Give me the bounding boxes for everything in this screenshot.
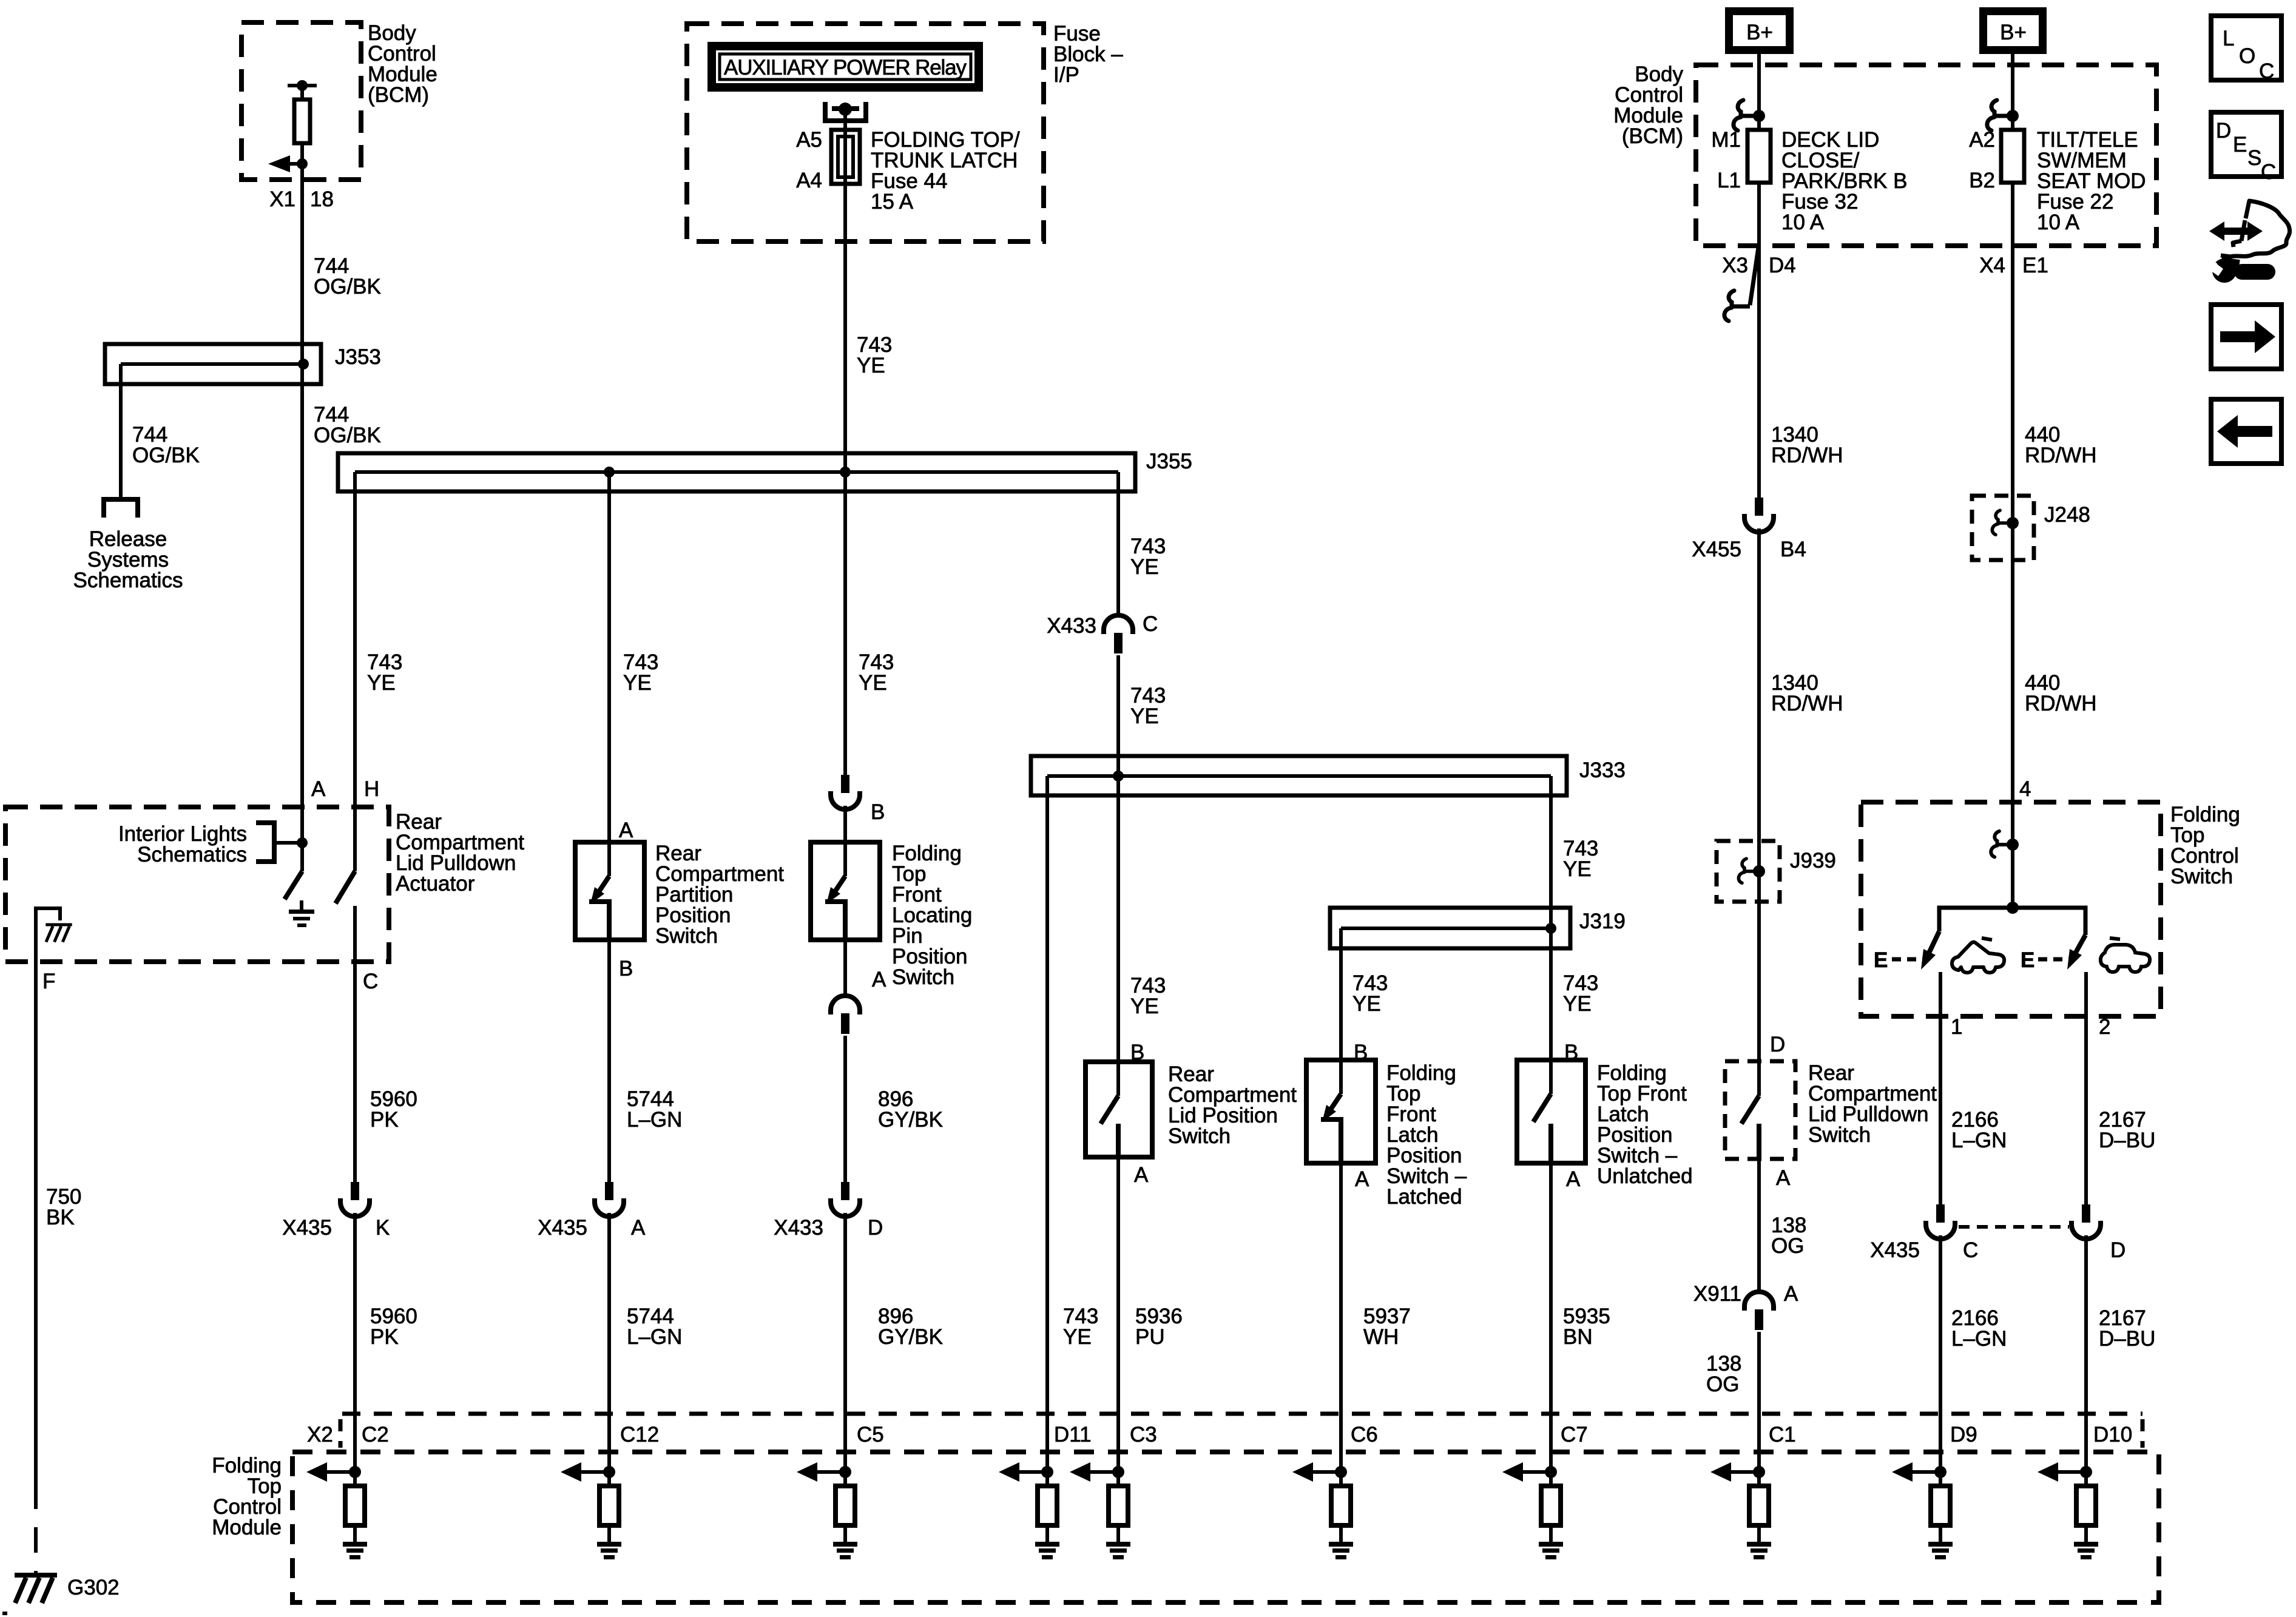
svg-text:1: 1 (1951, 1015, 1962, 1039)
node: relay output terminal bracket with dot (825, 102, 866, 121)
label wire 1340 RD/WH upper (1771, 423, 1843, 467)
svg-text:E1: E1 (2022, 254, 2048, 277)
module: Fuse Block - I/P dashed box (687, 24, 1044, 241)
svg-text:X911: X911 (1693, 1282, 1741, 1306)
connector X435 pin A (538, 1182, 646, 1240)
svg-text:OG: OG (1771, 1234, 1804, 1258)
svg-text:Switch: Switch (1808, 1123, 1871, 1147)
svg-text:Schematics: Schematics (73, 569, 183, 592)
svg-text:18: 18 (310, 187, 334, 211)
svg-text:Switch: Switch (1168, 1124, 1231, 1148)
wire: 744 OG/BK from J353 down to actuator pin A (300, 364, 304, 871)
svg-text:Schematics: Schematics (137, 843, 247, 866)
wire: 750 BK dashed continuation (34, 1484, 38, 1574)
svg-text:A5: A5 (796, 128, 822, 152)
svg-text:YE: YE (1563, 992, 1592, 1016)
svg-text:RD/WH: RD/WH (2025, 692, 2097, 715)
svg-text:M1: M1 (1711, 128, 1741, 152)
svg-text:G302: G302 (67, 1576, 120, 1599)
svg-text:E: E (1874, 948, 1888, 972)
svg-text:X455: X455 (1692, 538, 1741, 561)
label wire 2166 L-GN upper (1951, 1108, 2007, 1152)
wire: B+ feed into fuse 22 (2011, 54, 2014, 130)
label Folding Top Front Latch Position Switch - Unlatched (1597, 1061, 1693, 1188)
svg-text:C2: C2 (362, 1423, 389, 1447)
svg-text:PK: PK (370, 1325, 399, 1349)
label wire 743 YE feed to J319 (1563, 837, 1598, 881)
svg-text:L–GN: L–GN (627, 1108, 682, 1132)
label Release Systems Schematics (73, 527, 183, 592)
switch: folding top OPEN contact (1921, 931, 1939, 970)
label wire 5937 WH (1363, 1305, 1411, 1349)
label wire 743 YE col C7 (1563, 971, 1598, 1016)
label FOLDING TOP/ TRUNK LATCH Fuse 44 15 A (871, 128, 1020, 214)
wire: into locating pin switch (843, 806, 847, 876)
svg-text:K: K (376, 1216, 390, 1240)
svg-text:B+: B+ (1746, 21, 1773, 44)
connector X2 left tick (339, 1419, 343, 1448)
module input D11: arrow, resistor, ground (999, 1462, 1059, 1559)
switch: Folding Top Front Latch Position Switch - Latched (1306, 1060, 1376, 1163)
connector: locating pin switch pigtail B (831, 775, 885, 824)
splice J939 dashed box (1717, 841, 1780, 902)
svg-text:L–GN: L–GN (1951, 1327, 2007, 1351)
page corner mark (2, 1612, 7, 1615)
wire: 743 YE from J333 to lid position switch (1116, 776, 1120, 1096)
ground: chassis ground stub inside actuator box (36, 908, 72, 962)
svg-text:OG/BK: OG/BK (314, 424, 381, 447)
connector X911 pin A (1693, 1282, 1798, 1330)
wire: switch contact 2 to box bottom (2084, 972, 2088, 1204)
splice J333 (1031, 756, 1567, 795)
svg-text:D: D (2110, 1238, 2125, 1262)
icon LOC box (2211, 16, 2281, 83)
wire: 743 YE from J355 to partition switch (607, 472, 611, 876)
svg-text:PK: PK (370, 1108, 399, 1132)
wire: 743 YE from J355 to actuator pin H (353, 472, 357, 871)
wire: 2166 L-GN to module pin D9 (1939, 1235, 1942, 1472)
svg-text:C: C (1143, 612, 1158, 636)
splice J355 (338, 453, 1135, 491)
relay: AUXILIARY POWER Relay plate (707, 42, 983, 92)
switch: actuator contact H (336, 871, 355, 903)
svg-text:OG/BK: OG/BK (132, 444, 200, 467)
ground: actuator internal ground (289, 900, 314, 927)
wire: 5935 BN to module pin C7 (1549, 1163, 1553, 1472)
svg-text:D: D (1770, 1033, 1785, 1056)
svg-text:X433: X433 (774, 1216, 823, 1240)
svg-text:A: A (1134, 1163, 1149, 1187)
module input C5: arrow, resistor, ground (797, 1462, 857, 1559)
svg-text:YE: YE (1130, 704, 1159, 728)
svg-text:X433: X433 (1047, 614, 1096, 638)
wire: relay output to fuse 44 (843, 109, 847, 472)
icon right-arrow box (2211, 305, 2281, 369)
label Rear Compartment Lid Pulldown Switch (1808, 1061, 1937, 1147)
svg-text:H: H (364, 777, 379, 801)
label Folding Top Front Latch Position Switch - Latched (1386, 1061, 1467, 1209)
svg-text:Switch: Switch (2170, 865, 2233, 888)
svg-text:Latched: Latched (1386, 1185, 1462, 1209)
label Rear Compartment Partition Position Switch (655, 842, 784, 948)
module input C6: arrow, resistor, ground (1292, 1462, 1353, 1559)
label wire 743 YE col D11 (1063, 1305, 1098, 1349)
svg-text:D: D (868, 1216, 883, 1240)
svg-text:X3: X3 (1722, 254, 1748, 277)
svg-text:C3: C3 (1130, 1423, 1157, 1447)
module input C12: arrow, resistor, ground (561, 1462, 621, 1559)
wire: 744 OG/BK from BCM pin 18 to J353 (300, 164, 304, 364)
svg-text:RD/WH: RD/WH (1771, 692, 1843, 715)
svg-text:2: 2 (2099, 1015, 2110, 1039)
svg-text:OG: OG (1706, 1372, 1739, 1396)
module: Folding Top Control Module dashed box (292, 1452, 2159, 1602)
svg-text:C5: C5 (857, 1423, 884, 1447)
svg-text:YE: YE (1563, 857, 1592, 881)
svg-text:YE: YE (1130, 994, 1159, 1018)
icon adjustable (hand/wrench/double-arrow) (2206, 201, 2290, 283)
label wire 440 RD/WH lower (2025, 671, 2097, 715)
connector X3 pass-through jog (1724, 248, 1758, 321)
module input C3: arrow, resistor, ground (1070, 1462, 1130, 1559)
switch: Rear Compartment Lid Pulldown Switch dashed box (1725, 1061, 1795, 1159)
label wire 743 YE col 3 (859, 650, 894, 695)
svg-text:A: A (1784, 1282, 1798, 1306)
module input C2: arrow, resistor, ground (306, 1462, 367, 1559)
svg-text:B4: B4 (1780, 538, 1806, 561)
svg-text:YE: YE (1130, 555, 1159, 579)
svg-text:E: E (2021, 948, 2034, 972)
connector: off-page bracket to Release Systems Schematics (104, 499, 138, 518)
svg-text:YE: YE (367, 671, 396, 695)
wire: fuse 32 to BCM box bottom (1757, 183, 1761, 498)
svg-text:B+: B+ (2000, 21, 2027, 44)
svg-text:C6: C6 (1351, 1423, 1378, 1447)
svg-text:X435: X435 (1870, 1238, 1920, 1262)
splice J319 (1330, 908, 1570, 948)
connector X433 pin C (1047, 612, 1158, 653)
svg-text:C1: C1 (1769, 1423, 1796, 1447)
module input D10: arrow, resistor, ground (2038, 1462, 2098, 1559)
svg-text:Actuator: Actuator (396, 872, 475, 896)
svg-text:(BCM): (BCM) (1622, 124, 1683, 148)
svg-text:A2: A2 (1969, 128, 1995, 152)
switch: Folding Top Control Switch dashed box (1861, 802, 2161, 1016)
svg-text:B: B (871, 800, 885, 824)
icon: car with open deck lid (1952, 938, 2004, 973)
svg-text:O: O (2239, 44, 2255, 68)
svg-text:D4: D4 (1769, 254, 1796, 277)
wire: 138 OG to module pin C1 (1757, 1332, 1761, 1472)
module input C1: arrow, resistor, ground (1710, 1462, 1771, 1559)
label E-- left (1874, 948, 1923, 972)
label wire 5960 PK lower (370, 1305, 417, 1349)
svg-text:D11: D11 (1054, 1423, 1092, 1447)
power: B+ box right (1979, 7, 2047, 54)
svg-text:BN: BN (1563, 1325, 1593, 1349)
label Folding Top Control Switch (2170, 803, 2240, 888)
label Rear Compartment Lid Position Switch (1168, 1062, 1297, 1148)
label wire 5960 PK upper (370, 1087, 417, 1132)
svg-text:D–BU: D–BU (2099, 1327, 2155, 1351)
wire: fuse 22 down to folding top control switch (2011, 183, 2014, 908)
svg-text:D9: D9 (1950, 1423, 1977, 1447)
node: fuse 22 supply tap with curl (1987, 100, 2019, 130)
label Body Control Module (BCM) right (1613, 62, 1683, 148)
svg-text:A: A (631, 1216, 646, 1240)
svg-text:E: E (2233, 133, 2247, 157)
label wire 743 YE above X433 C (1130, 535, 1166, 579)
fuse: TILT/TELE SW/MEM SEAT MOD Fuse 22 10A (2001, 130, 2024, 183)
svg-text:15 A: 15 A (871, 190, 914, 214)
svg-text:YE: YE (857, 354, 885, 377)
wire: 5937 WH to module pin C6 (1339, 1163, 1343, 1472)
wire: 5936 PU to module pin C3 (1116, 1157, 1120, 1472)
svg-text:S: S (2247, 146, 2261, 170)
svg-text:10 A: 10 A (1781, 211, 1825, 234)
label wire 1340 RD/WH lower (1771, 671, 1843, 715)
icon: car closed (2101, 938, 2150, 972)
svg-text:X2: X2 (307, 1423, 333, 1447)
wire: 743 YE from J319 to unlatched switch (1549, 928, 1553, 1094)
node: switch feed tap with curl (1991, 831, 2019, 857)
svg-text:B: B (619, 957, 633, 981)
svg-text:GY/BK: GY/BK (878, 1325, 943, 1349)
label wire 896 GY/BK lower (878, 1305, 943, 1349)
svg-text:L–GN: L–GN (1951, 1129, 2007, 1152)
svg-text:OG/BK: OG/BK (314, 275, 381, 299)
wire: 1340 RD/WH from X455 to pulldown switch (1757, 528, 1761, 1096)
svg-text:C12: C12 (620, 1423, 659, 1447)
svg-text:Module: Module (212, 1516, 282, 1539)
svg-text:J333: J333 (1579, 758, 1626, 782)
connector X2: harness boundary dotted line (342, 1412, 2142, 1416)
connector X435 pin C (1870, 1204, 1978, 1262)
svg-text:A: A (872, 968, 886, 991)
label wire 138 OG lower (1706, 1352, 1741, 1396)
node: output junction with left arrow (268, 155, 308, 172)
svg-text:J353: J353 (335, 345, 381, 369)
svg-text:AUXILIARY POWER Relay: AUXILIARY POWER Relay (724, 56, 967, 79)
label wire 440 RD/WH upper (2025, 423, 2097, 467)
pin X1 18 (269, 187, 334, 211)
svg-text:C: C (1963, 1238, 1978, 1262)
switch: Rear Compartment Partition Position Switch (575, 842, 644, 940)
label Folding Top Control Module (212, 1454, 282, 1539)
wire: 743 YE from J355 to locating pin switch connector B (843, 472, 847, 775)
svg-text:A: A (1566, 1167, 1581, 1191)
svg-text:YE: YE (1063, 1325, 1092, 1349)
label wire 744 OG/BK branch (132, 423, 200, 467)
label wire 2166 L-GN lower (1951, 1306, 2007, 1351)
icon left-arrow box (2211, 399, 2281, 464)
connector: locating pin switch pigtail A (831, 996, 860, 1034)
wire: 750 BK ground wire (34, 962, 38, 1484)
label wire 744 OG/BK (314, 254, 381, 299)
svg-text:BK: BK (46, 1206, 75, 1229)
wire: actuator H to box bottom (353, 906, 357, 1182)
label TILT/TELE SW/MEM SEAT MOD Fuse 22 10 A (2037, 128, 2146, 234)
wire: 5744 L-GN to X435 A (607, 940, 611, 1182)
svg-text:C: C (363, 970, 378, 993)
ground G302 (15, 1575, 57, 1603)
label wire 5936 PU (1135, 1305, 1183, 1349)
wire: 896 GY/BK to X433 D (843, 1036, 847, 1182)
svg-text:PU: PU (1135, 1325, 1165, 1349)
switch: Folding Top Front Latch Position Switch - Unlatched (1517, 1060, 1585, 1163)
switch: Rear Compartment Lid Position Switch (1086, 1062, 1152, 1157)
label wire 5744 L-GN upper (627, 1087, 682, 1132)
svg-text:F: F (42, 970, 55, 993)
svg-text:A: A (311, 777, 326, 801)
label Folding Top Front Locating Pin Position Switch (892, 842, 972, 989)
wire: B+ feed into fuse 32 (1757, 54, 1761, 130)
label wire 744 OG/BK below J353 (314, 403, 381, 447)
svg-text:J248: J248 (2044, 503, 2090, 527)
svg-text:L–GN: L–GN (627, 1325, 682, 1349)
label wire 2167 D-BU upper (2099, 1108, 2155, 1152)
svg-text:X4: X4 (1979, 254, 2005, 277)
svg-text:L1: L1 (1717, 169, 1741, 192)
icon DESC box (2211, 112, 2281, 184)
fuse: DECK LID CLOSE/PARK/BRK B Fuse 32 10A (1747, 130, 1771, 183)
label wire 743 YE below X433 C (1130, 684, 1166, 728)
svg-text:I/P: I/P (1053, 63, 1079, 87)
svg-text:X435: X435 (538, 1216, 587, 1240)
svg-text:YE: YE (1352, 992, 1381, 1016)
svg-text:C7: C7 (1561, 1423, 1588, 1447)
module: Rear Compartment Lid Pulldown Actuator dashed box (5, 807, 389, 962)
svg-text:A: A (1776, 1166, 1791, 1190)
switch: actuator contact A to ground (285, 871, 302, 899)
wire: 2167 D-BU to module pin D10 (2084, 1235, 2088, 1472)
wire: 138 OG to X911 (1757, 1159, 1761, 1291)
module: Body Control Module (BCM) right dashed box (1696, 65, 2156, 246)
wire: 743 YE from J319 to latched switch (1339, 928, 1343, 1094)
switch: folding top CLOSE contact (2067, 935, 2085, 970)
resistor: BCM internal load (294, 100, 310, 143)
svg-text:A: A (1355, 1167, 1369, 1191)
svg-text:D–BU: D–BU (2099, 1129, 2155, 1152)
svg-text:Switch: Switch (892, 965, 954, 989)
svg-text:L: L (2223, 27, 2234, 50)
label E-- right (2021, 948, 2070, 972)
svg-text:(BCM): (BCM) (368, 83, 429, 107)
svg-text:YE: YE (623, 671, 652, 695)
wire: resistor leads (300, 86, 304, 164)
svg-text:C: C (2259, 59, 2274, 83)
label wire 743 YE col C6 (1352, 971, 1388, 1016)
wire: 743 YE from X433 C to J333 (1116, 655, 1120, 776)
pin X4 E1 (1979, 254, 2048, 277)
node: internal BCM terminal bar with junction dot (288, 80, 317, 91)
label wire 743 YE col 2 (623, 650, 658, 695)
svg-text:J939: J939 (1790, 849, 1836, 873)
wire: switch to pigtail connector A (843, 940, 847, 994)
svg-text:X1: X1 (269, 187, 295, 211)
svg-text:D: D (2216, 119, 2231, 143)
splice J248 dashed box (1972, 496, 2034, 560)
svg-text:A4: A4 (796, 169, 822, 192)
node: fuse 32 supply tap with curl (1734, 100, 1765, 130)
pin X3 D4 (1722, 254, 1796, 277)
fuse: FOLDING TOP/TRUNK LATCH Fuse 44 15A (831, 130, 860, 184)
svg-text:Unlatched: Unlatched (1597, 1164, 1693, 1188)
wire: 896 GY/BK to module pin C5 (843, 1213, 847, 1472)
label Fuse Block - I/P (1053, 22, 1123, 87)
switch: Folding Top Front Locating Pin Position Switch (811, 842, 880, 940)
svg-text:J319: J319 (1579, 910, 1626, 933)
svg-text:WH: WH (1363, 1325, 1399, 1349)
wire: 5744 L-GN to module pin C12 (607, 1213, 611, 1472)
label wire 743 YE below fuse block (857, 333, 892, 377)
svg-text:D10: D10 (2093, 1423, 2132, 1447)
label wire 896 GY/BK upper (878, 1087, 943, 1132)
module input C7: arrow, resistor, ground (1502, 1462, 1563, 1559)
module input D9: arrow, resistor, ground (1892, 1462, 1953, 1559)
node: switch common junction (1939, 902, 2085, 935)
svg-text:Switch: Switch (655, 924, 718, 948)
svg-text:RD/WH: RD/WH (2025, 444, 2097, 467)
wire: 744 OG/BK branch to Release Systems (119, 364, 123, 499)
connector X433 pin D (774, 1182, 883, 1240)
svg-text:YE: YE (859, 671, 887, 695)
connector X435 pin D (2071, 1204, 2125, 1262)
svg-text:B2: B2 (1969, 169, 1995, 192)
splice J353 (105, 344, 321, 384)
wire: switch contact 1 to box bottom (1939, 972, 1942, 1204)
svg-text:GY/BK: GY/BK (878, 1108, 943, 1132)
svg-text:10 A: 10 A (2037, 211, 2080, 234)
label wire 750 BK (46, 1185, 81, 1229)
wire: 5960 PK to module pin C2 (353, 1213, 357, 1472)
label DECK LID CLOSE/ PARK/BRK B Fuse 32 10 A (1781, 128, 1907, 234)
wire: 743 YE from J333 right end down to J319 (1549, 776, 1553, 928)
svg-text:RD/WH: RD/WH (1771, 444, 1843, 467)
wire: 743 YE from J333 to module pin D11 (1045, 776, 1049, 1472)
svg-text:J355: J355 (1146, 450, 1192, 473)
connector X435 pin K (282, 1182, 390, 1240)
module: Body Control Module (BCM) top-left dashed box (241, 22, 361, 180)
svg-text:A: A (619, 819, 633, 842)
wire: dashed connector link X435 C-D (1959, 1225, 2069, 1229)
wire: 743 YE from J355 right end down to X433 C (1116, 472, 1120, 614)
label wire 743 YE col 1 (367, 650, 402, 695)
connector X455 pin B4 (1692, 498, 1806, 561)
connector X2 right tick (2141, 1419, 2145, 1448)
label wire 743 YE col C3 (1130, 974, 1166, 1018)
svg-text:4: 4 (2019, 777, 2031, 801)
label wire 5744 L-GN lower (627, 1305, 682, 1349)
power: B+ box left (1725, 7, 1794, 54)
svg-text:C: C (2261, 160, 2276, 184)
svg-text:X435: X435 (282, 1216, 332, 1240)
label wire 2167 D-BU lower (2099, 1306, 2155, 1351)
label wire 5935 BN (1563, 1305, 1610, 1349)
label Interior Lights Schematics with bracket (118, 822, 308, 866)
label wire 138 OG upper (1771, 1214, 1806, 1258)
label Rear Compartment Lid Pulldown Actuator (396, 810, 524, 896)
